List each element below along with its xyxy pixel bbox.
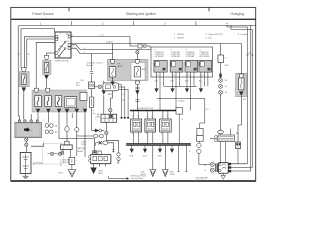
svg-text:RLY: RLY bbox=[76, 85, 80, 87]
svg-text:AM1: AM1 bbox=[60, 45, 64, 48]
svg-text:W-R: W-R bbox=[225, 65, 230, 67]
svg-text:IG1 RELAY: IG1 RELAY bbox=[155, 55, 165, 58]
svg-text:ST RELAY: ST RELAY bbox=[186, 55, 195, 58]
svg-text:BATTERY: BATTERY bbox=[33, 163, 44, 166]
svg-text:2 (2NZ-FE): 2 (2NZ-FE) bbox=[60, 162, 70, 164]
svg-text:RELAY: RELAY bbox=[77, 150, 84, 153]
svg-text:W: W bbox=[28, 54, 30, 56]
svg-text:Starting and Ignition: Starting and Ignition bbox=[126, 12, 156, 16]
svg-text:4 IGNITION COIL: 4 IGNITION COIL bbox=[138, 108, 155, 110]
svg-text:W-B: W-B bbox=[130, 156, 135, 158]
svg-text:*3 : Invisible: *3 : Invisible bbox=[237, 34, 249, 36]
svg-text:W: W bbox=[123, 100, 125, 102]
svg-text:2 (B): 2 (B) bbox=[81, 144, 86, 146]
svg-text:IG2 RELAY: IG2 RELAY bbox=[171, 55, 181, 58]
svg-text:IGNITION SW: IGNITION SW bbox=[55, 60, 70, 62]
svg-text:1 : 1NZ-FE: 1 : 1NZ-FE bbox=[174, 34, 184, 36]
svg-text:ST2: ST2 bbox=[66, 41, 69, 43]
svg-text:1 2 3: 1 2 3 bbox=[155, 75, 159, 77]
svg-text:2 : 2NZ-FE: 2 : 2NZ-FE bbox=[174, 38, 184, 40]
svg-text:4 (A) W: 4 (A) W bbox=[106, 41, 113, 44]
svg-text:*1 : Spare W8 78 87: *1 : Spare W8 78 87 bbox=[205, 34, 224, 36]
svg-text:1 2 3: 1 2 3 bbox=[171, 75, 175, 77]
svg-text:*2 : W-L: *2 : W-L bbox=[205, 38, 213, 40]
svg-text:S/B Engine Room: S/B Engine Room bbox=[131, 176, 147, 178]
svg-text:AM2: AM2 bbox=[66, 33, 70, 36]
svg-text:1 2 3: 1 2 3 bbox=[186, 75, 190, 77]
svg-text:W: W bbox=[93, 113, 95, 115]
svg-text:B (2NZ-FE): B (2NZ-FE) bbox=[196, 180, 207, 182]
svg-text:W-B: W-B bbox=[59, 173, 64, 175]
svg-text:Module: Module bbox=[87, 65, 94, 67]
svg-text:W: W bbox=[60, 165, 62, 167]
svg-text:2 (B): 2 (B) bbox=[95, 117, 100, 119]
svg-text:B-L: B-L bbox=[199, 80, 202, 82]
svg-text:B-W: B-W bbox=[185, 80, 189, 82]
svg-text:7: 7 bbox=[72, 48, 73, 50]
svg-text:W-B: W-B bbox=[141, 172, 146, 174]
svg-text:6: 6 bbox=[72, 44, 73, 46]
svg-text:ACC RELAY: ACC RELAY bbox=[200, 55, 211, 58]
svg-text:5: 5 bbox=[72, 35, 73, 37]
svg-text:(A/T): (A/T) bbox=[99, 172, 104, 175]
svg-text:STARTER: STARTER bbox=[77, 147, 87, 150]
svg-text:Power Source: Power Source bbox=[32, 12, 53, 16]
svg-text:W: W bbox=[18, 54, 20, 56]
svg-text:4: 4 bbox=[60, 34, 61, 36]
svg-text:To Igniter: To Igniter bbox=[178, 100, 186, 103]
svg-text:W-B: W-B bbox=[143, 156, 148, 158]
svg-text:2: 2 bbox=[51, 35, 52, 37]
svg-text:1 2 3: 1 2 3 bbox=[200, 75, 204, 77]
svg-text:1J: 1J bbox=[225, 86, 227, 88]
svg-text:W-B (1NZ-FE): W-B (1NZ-FE) bbox=[196, 178, 209, 180]
svg-text:Charging: Charging bbox=[230, 12, 244, 16]
svg-text:W-B: W-B bbox=[170, 172, 175, 174]
svg-text:MAIN: MAIN bbox=[118, 65, 124, 68]
svg-text:W-B: W-B bbox=[158, 156, 163, 158]
svg-text:W: W bbox=[249, 53, 251, 55]
svg-text:1 (1NZ-FE): 1 (1NZ-FE) bbox=[60, 160, 70, 162]
svg-text:1 (A): 1 (A) bbox=[95, 113, 100, 116]
svg-text:1 (A): 1 (A) bbox=[81, 141, 86, 144]
svg-text:Junction Block: Junction Block bbox=[131, 177, 144, 180]
svg-text:(2NZ): (2NZ) bbox=[170, 174, 175, 176]
svg-text:W-B: W-B bbox=[99, 171, 104, 173]
